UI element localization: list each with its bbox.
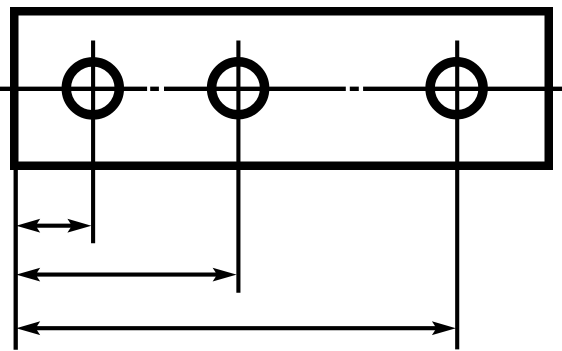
- horizontal centerline through holes: [0, 87, 562, 91]
- hole 2: [212, 62, 265, 115]
- vertical centerline hole 3: [455, 41, 459, 350]
- hole 1: [66, 62, 119, 115]
- dimension line 1 (datum to hole 1): [16, 219, 91, 233]
- dimension line 2 (datum to hole 2): [16, 268, 236, 282]
- dimension line 3 (datum to hole 3): [16, 321, 456, 335]
- vertical centerline hole 1: [91, 41, 95, 244]
- datum extension line (left edge): [14, 167, 18, 350]
- hole 3: [430, 62, 483, 115]
- vertical centerline hole 2: [236, 41, 240, 293]
- plate outline (rectangular part): [14, 11, 549, 166]
